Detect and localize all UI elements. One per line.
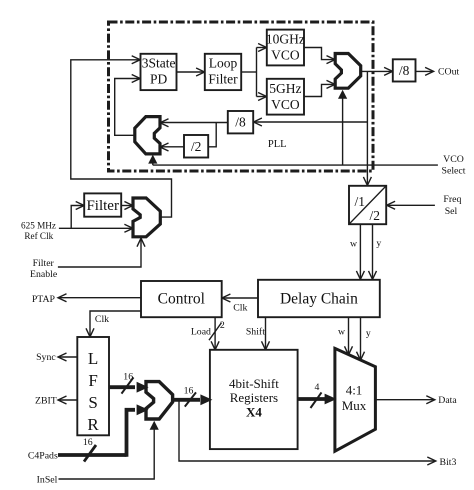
svg-text:Sync: Sync xyxy=(36,352,56,363)
svg-text:Filter: Filter xyxy=(208,72,238,87)
svg-text:5GHz: 5GHz xyxy=(269,81,301,96)
svg-text:PD: PD xyxy=(150,72,168,87)
svg-text:F: F xyxy=(88,371,97,390)
svg-text:Load: Load xyxy=(191,326,211,337)
svg-text:Sel: Sel xyxy=(445,206,458,217)
svg-text:ZBIT: ZBIT xyxy=(35,396,57,407)
svg-text:Select: Select xyxy=(442,166,466,177)
svg-text:2: 2 xyxy=(220,320,225,331)
svg-text:Control: Control xyxy=(158,291,205,308)
svg-text:L: L xyxy=(88,349,98,368)
svg-text:/2: /2 xyxy=(191,139,202,154)
svg-text:VCO: VCO xyxy=(271,97,300,112)
svg-text:w: w xyxy=(338,326,346,337)
svg-text:/8: /8 xyxy=(399,63,410,78)
svg-text:10GHz: 10GHz xyxy=(266,32,305,47)
svg-text:R: R xyxy=(87,415,99,434)
svg-text:4:1: 4:1 xyxy=(346,383,363,398)
svg-text:PLL: PLL xyxy=(268,139,287,150)
svg-text:Enable: Enable xyxy=(30,269,58,280)
svg-text:COut: COut xyxy=(438,66,460,77)
svg-text:Mux: Mux xyxy=(342,398,367,413)
svg-text:Freq: Freq xyxy=(443,194,461,205)
svg-text:/8: /8 xyxy=(235,115,246,130)
svg-text:Registers: Registers xyxy=(230,390,278,405)
svg-text:S: S xyxy=(88,393,97,412)
svg-text:Clk: Clk xyxy=(95,314,109,325)
svg-text:PTAP: PTAP xyxy=(32,294,56,305)
svg-text:4: 4 xyxy=(315,382,320,393)
svg-text:y: y xyxy=(376,238,381,249)
svg-text:Clk: Clk xyxy=(233,302,247,313)
svg-text:Data: Data xyxy=(438,395,457,406)
svg-text:/1: /1 xyxy=(355,194,366,209)
svg-text:w: w xyxy=(350,238,358,249)
svg-text:Delay Chain: Delay Chain xyxy=(280,291,358,308)
svg-text:Loop: Loop xyxy=(209,56,238,71)
svg-text:X4: X4 xyxy=(246,405,262,420)
svg-text:InSel: InSel xyxy=(37,475,58,486)
svg-text:625 MHz: 625 MHz xyxy=(21,220,56,230)
svg-text:y: y xyxy=(366,328,371,339)
svg-text:Bit3: Bit3 xyxy=(440,457,457,468)
svg-text:C4Pads: C4Pads xyxy=(28,451,58,462)
svg-text:Filter: Filter xyxy=(86,198,119,214)
svg-text:16: 16 xyxy=(83,437,93,448)
svg-text:Ref Clk: Ref Clk xyxy=(24,231,53,241)
svg-text:Filter: Filter xyxy=(33,258,55,269)
svg-text:Shift: Shift xyxy=(246,326,265,337)
svg-text:4bit-Shift: 4bit-Shift xyxy=(229,376,279,391)
svg-text:/2: /2 xyxy=(370,208,381,223)
svg-text:16: 16 xyxy=(184,385,194,396)
svg-text:VCO: VCO xyxy=(443,154,464,165)
svg-text:16: 16 xyxy=(123,372,133,383)
svg-text:VCO: VCO xyxy=(271,48,300,63)
svg-text:3State: 3State xyxy=(142,56,176,71)
